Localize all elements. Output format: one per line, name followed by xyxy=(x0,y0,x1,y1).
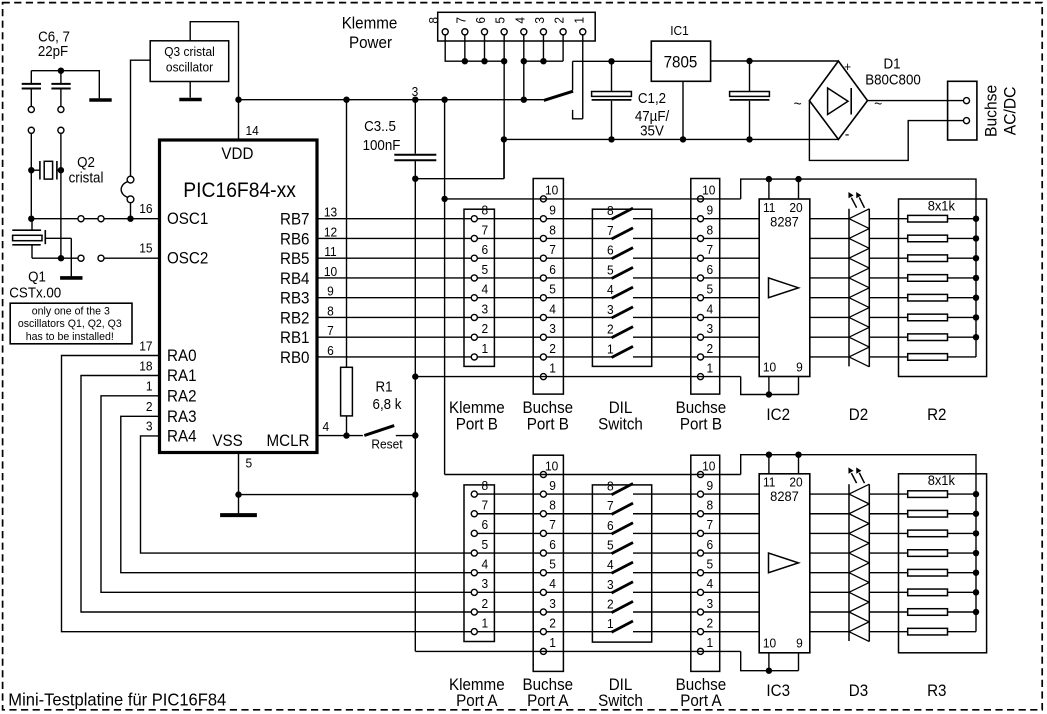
svg-text:IC1: IC1 xyxy=(670,24,689,39)
svg-text:8: 8 xyxy=(481,478,488,493)
svg-text:VDD: VDD xyxy=(221,145,253,163)
svg-text:2: 2 xyxy=(552,17,567,24)
svg-text:2: 2 xyxy=(481,322,488,337)
resistor R3 element 2 xyxy=(908,510,948,517)
svg-text:Port A: Port A xyxy=(680,692,722,710)
buffer IC IC2 8287 xyxy=(759,199,810,377)
wire row A4 across xyxy=(474,572,611,574)
wire OSC1 net xyxy=(31,218,98,220)
svg-text:7805: 7805 xyxy=(664,54,698,72)
capacitor C3..5 xyxy=(414,100,416,154)
svg-text:6: 6 xyxy=(327,343,334,358)
wire row B4 LED to resistor xyxy=(869,297,907,299)
svg-text:RB7: RB7 xyxy=(280,211,310,229)
node reset on ground line xyxy=(412,432,418,438)
svg-text:3: 3 xyxy=(607,577,614,592)
switch DIL B2 blade xyxy=(612,327,634,338)
switch DIL B4 blade xyxy=(612,287,634,298)
wire RB5 row pin 11 xyxy=(317,257,612,259)
wire Klemme Power pins 8-5 bus xyxy=(445,35,504,62)
node R2 common 5 xyxy=(973,295,979,301)
svg-text:3: 3 xyxy=(146,419,153,434)
wire row B8 resistor to common xyxy=(948,218,977,220)
wire RB4 row pin 10 xyxy=(317,277,612,279)
oscillator box Q3 xyxy=(150,41,229,82)
bridge rectifier D1 xyxy=(809,61,867,139)
node R3 common 7 xyxy=(973,609,979,615)
svg-text:Switch: Switch xyxy=(598,416,643,434)
svg-text:Q1: Q1 xyxy=(28,268,46,285)
wire IC1 ground pin xyxy=(682,81,684,139)
wire Q3 power to VDD rail xyxy=(190,22,238,100)
node R2 common 2 xyxy=(973,235,979,241)
svg-text:has to be installed!: has to be installed! xyxy=(26,331,114,343)
svg-text:5: 5 xyxy=(607,263,614,278)
pin 20 lead IC2 xyxy=(798,179,800,199)
svg-text:2: 2 xyxy=(549,341,556,356)
wire RB1 row pin 7 xyxy=(317,336,612,338)
svg-text:Q3 cristal: Q3 cristal xyxy=(164,45,214,60)
wire row B1 resistor to common xyxy=(948,356,977,358)
wire row A3 LED to resistor xyxy=(869,591,907,593)
note box xyxy=(10,303,132,344)
svg-text:6: 6 xyxy=(706,537,713,552)
wire row A8 IC to LED xyxy=(810,493,849,495)
pin 9 lead IC2 xyxy=(798,377,800,395)
svg-text:MCLR: MCLR xyxy=(267,432,310,450)
wire crystal right leg xyxy=(60,133,62,258)
svg-text:9: 9 xyxy=(549,203,556,218)
node C1 top join xyxy=(608,58,614,64)
svg-text:3: 3 xyxy=(549,596,556,611)
wire row A2 LED to resistor xyxy=(869,611,907,613)
svg-text:-: - xyxy=(845,127,850,144)
svg-text:RA1: RA1 xyxy=(167,368,197,386)
LED array D3 xyxy=(848,484,850,641)
svg-text:OSC2: OSC2 xyxy=(167,250,208,268)
svg-text:9: 9 xyxy=(549,478,556,493)
svg-text:4: 4 xyxy=(706,302,713,317)
svg-text:15: 15 xyxy=(139,241,152,256)
svg-text:8: 8 xyxy=(327,304,334,319)
pin 5 VSS lead xyxy=(238,453,240,495)
wire VDD row Port B xyxy=(445,198,741,200)
svg-text:8: 8 xyxy=(426,17,441,24)
svg-text:8: 8 xyxy=(607,479,614,494)
svg-text:14: 14 xyxy=(246,124,259,139)
LED array D2 xyxy=(848,209,850,367)
svg-text:7: 7 xyxy=(607,499,614,514)
wire row A4 IC to LED xyxy=(810,572,849,574)
svg-text:3: 3 xyxy=(706,596,713,611)
svg-text:7: 7 xyxy=(706,243,713,258)
pin 11 lead IC2 xyxy=(768,179,770,199)
capacitor C1 xyxy=(611,61,613,91)
svg-text:6: 6 xyxy=(481,243,488,258)
svg-text:4: 4 xyxy=(607,558,614,573)
wire row A6 IC to LED xyxy=(810,532,849,534)
svg-text:1: 1 xyxy=(607,342,614,357)
wire row B7 resistor to common xyxy=(948,237,977,239)
switch DIL B3 blade xyxy=(612,307,634,318)
wire row A1 resistor to common xyxy=(948,631,977,633)
wire row A8 across xyxy=(474,493,611,495)
resistor R2 element 5 xyxy=(908,294,948,301)
wire R1 to MCLR xyxy=(346,416,348,436)
wire RA0 to Klemme Port A xyxy=(62,356,472,632)
node IC2 pin 10 xyxy=(766,391,772,397)
connector Klemme Port B xyxy=(464,209,494,366)
svg-text:IC3: IC3 xyxy=(766,683,790,701)
svg-text:Buchse: Buchse xyxy=(522,399,573,417)
wire row A1 LED to resistor xyxy=(869,631,907,633)
node MCLR R1 junction xyxy=(343,432,349,438)
svg-text:~: ~ xyxy=(794,96,802,113)
wire row A1 IC to LED xyxy=(810,631,849,633)
node IC3 pin 11 xyxy=(766,452,772,458)
wire row B1 IC to LED xyxy=(810,356,849,358)
switch DIL A8 blade xyxy=(612,484,634,495)
svg-text:4: 4 xyxy=(323,419,330,434)
switch DIL B6 blade xyxy=(612,248,634,259)
wire RA2 to Klemme Port A xyxy=(101,396,471,593)
pin 9 lead IC3 xyxy=(798,653,800,671)
LED arrows D3 xyxy=(851,473,856,483)
wire pin4 bus to rail xyxy=(523,61,525,99)
wire row B6 IC to LED xyxy=(810,257,849,259)
node ground at port B xyxy=(412,373,418,379)
PIC16F84 IC body U1 xyxy=(160,140,318,453)
svg-text:2: 2 xyxy=(706,616,713,631)
svg-text:Port A: Port A xyxy=(527,692,569,710)
wire ground line vertical xyxy=(414,179,416,652)
svg-text:Switch: Switch xyxy=(598,692,643,710)
node VDD drop rail join xyxy=(441,97,447,103)
svg-text:5: 5 xyxy=(706,282,713,297)
pin 4 MCLR lead xyxy=(317,435,363,437)
svg-text:D1: D1 xyxy=(883,55,900,72)
svg-text:13: 13 xyxy=(324,205,337,220)
svg-text:R2: R2 xyxy=(927,406,947,424)
pin 20 lead IC3 xyxy=(798,455,800,474)
resistor network R2 box xyxy=(899,199,987,377)
svg-text:1: 1 xyxy=(146,379,153,394)
svg-text:IC2: IC2 xyxy=(766,406,790,424)
svg-text:8: 8 xyxy=(706,223,713,238)
wire row B7 IC to LED xyxy=(810,237,849,239)
svg-text:AC/DC: AC/DC xyxy=(1001,86,1020,135)
crystal Q2 xyxy=(31,169,40,171)
connector Klemme Port A xyxy=(464,485,494,642)
wire C6/C7 top to ground xyxy=(31,70,99,72)
resistor R1 xyxy=(341,367,353,416)
svg-text:6: 6 xyxy=(481,518,488,533)
svg-text:100nF: 100nF xyxy=(363,136,401,153)
ground Q1 xyxy=(60,276,82,280)
wire row A7 resistor to common xyxy=(948,513,977,515)
svg-text:7: 7 xyxy=(549,243,556,258)
svg-text:RB0: RB0 xyxy=(280,349,310,367)
svg-text:Q2: Q2 xyxy=(77,153,95,170)
switch power upper contact xyxy=(572,61,574,90)
svg-text:Port B: Port B xyxy=(527,416,569,434)
svg-text:DIL: DIL xyxy=(609,399,633,417)
svg-text:RB5: RB5 xyxy=(280,251,310,269)
jumper pads OSC1 xyxy=(78,216,84,222)
wire row A8 LED to resistor xyxy=(869,493,907,495)
svg-text:10: 10 xyxy=(763,636,776,651)
DIL switch Port A xyxy=(592,485,651,642)
switch DIL A3 blade xyxy=(612,582,634,593)
node IC2 pin 11 xyxy=(766,176,772,182)
svg-text:5: 5 xyxy=(706,557,713,572)
ground Q3 xyxy=(179,98,201,102)
svg-text:8x1k: 8x1k xyxy=(928,198,955,214)
wire row A4 resistor to common xyxy=(948,572,977,574)
svg-text:22pF: 22pF xyxy=(38,42,68,59)
resistor network R3 box xyxy=(899,474,987,653)
svg-text:9: 9 xyxy=(706,203,713,218)
svg-text:1: 1 xyxy=(481,616,488,631)
node R2 common 6 xyxy=(973,314,979,320)
wire bridge to AC jack top xyxy=(868,100,964,102)
wire row A8 resistor to common xyxy=(948,493,977,495)
node VSS on ground line xyxy=(412,491,418,497)
wire row B3 IC to LED xyxy=(810,316,849,318)
svg-text:2: 2 xyxy=(549,616,556,631)
svg-text:D3: D3 xyxy=(849,683,869,701)
node pin4 rail join xyxy=(521,97,527,103)
switch DIL B7 blade xyxy=(612,228,634,239)
wire RB0 row pin 6 xyxy=(317,356,612,358)
svg-text:C1,2: C1,2 xyxy=(638,89,666,106)
svg-text:9: 9 xyxy=(327,284,334,299)
node R2 common 3 xyxy=(973,255,979,261)
wire row A6 resistor to common xyxy=(948,532,977,534)
svg-text:5: 5 xyxy=(481,537,488,552)
wire Klemme Power pins 4-2 bus xyxy=(524,60,563,62)
switch DIL B5 blade xyxy=(612,267,634,278)
svg-text:7: 7 xyxy=(549,518,556,533)
wire row B8 LED to resistor xyxy=(869,218,907,220)
svg-text:8: 8 xyxy=(481,203,488,218)
resistor R3 element 6 xyxy=(908,589,948,596)
svg-text:3: 3 xyxy=(706,322,713,337)
node R3 common 2 xyxy=(973,511,979,517)
wire RB3 row pin 9 xyxy=(317,297,612,299)
wire C3 ground segment xyxy=(415,178,504,180)
switch DIL A7 blade xyxy=(612,503,634,514)
svg-text:Port B: Port B xyxy=(456,416,498,434)
svg-text:5: 5 xyxy=(493,17,508,24)
DIL switch Port B xyxy=(592,209,651,366)
ground VSS symbol xyxy=(238,495,240,514)
pin 10 lead IC3 xyxy=(768,653,770,671)
resistor R2 element 7 xyxy=(908,334,948,341)
svg-text:PIC16F84-xx: PIC16F84-xx xyxy=(183,179,296,202)
wire VSS to ground line xyxy=(239,494,416,496)
svg-text:Port B: Port B xyxy=(680,416,722,434)
wire VDD drop vertical xyxy=(444,100,446,475)
resistor R3 element 4 xyxy=(908,550,948,557)
connector Buchse AC/DC xyxy=(948,81,977,140)
switch DIL B8 blade xyxy=(612,208,634,219)
ground C6/C7 xyxy=(89,98,111,102)
wire row B6 resistor to common xyxy=(948,257,977,259)
wire row B5 LED to resistor xyxy=(869,277,907,279)
wire row B2 resistor to common xyxy=(948,336,977,338)
svg-text:10: 10 xyxy=(545,459,558,474)
svg-text:16: 16 xyxy=(139,202,152,217)
node R2 common 4 xyxy=(973,275,979,281)
wire bus to ground rail xyxy=(503,61,505,179)
capacitor C2 xyxy=(749,61,751,91)
node C6/C7 junction xyxy=(58,68,64,74)
svg-text:6: 6 xyxy=(549,537,556,552)
node R2 common 7 xyxy=(973,334,979,340)
wire row A2 IC to LED xyxy=(810,611,849,613)
svg-text:10: 10 xyxy=(702,459,715,474)
wire row A2 across xyxy=(474,611,611,613)
svg-text:5: 5 xyxy=(549,282,556,297)
svg-text:8: 8 xyxy=(607,204,614,219)
wire VDD rail to R1 xyxy=(346,100,348,368)
connector Buchse Port A left xyxy=(533,455,563,671)
svg-text:7: 7 xyxy=(327,324,334,339)
resistor R3 element 8 xyxy=(908,628,948,635)
wire row A4 LED to resistor xyxy=(869,572,907,574)
resistor R2 element 3 xyxy=(908,255,948,262)
svg-text:Buchse: Buchse xyxy=(982,85,1001,137)
switch DIL A6 blade xyxy=(612,523,634,534)
svg-text:6: 6 xyxy=(607,243,614,258)
resistor R2 element 6 xyxy=(908,314,948,321)
resistor R2 element 2 xyxy=(908,235,948,242)
wire row A7 LED to resistor xyxy=(869,513,907,515)
node IC1 ground join xyxy=(680,136,686,142)
svg-text:4: 4 xyxy=(481,557,488,572)
svg-text:4: 4 xyxy=(549,577,556,592)
node R2 common 1 xyxy=(973,216,979,222)
wire OSC2 net xyxy=(61,257,78,259)
wire row A7 IC to LED xyxy=(810,513,849,515)
node R1 rail join xyxy=(343,97,349,103)
svg-text:5: 5 xyxy=(246,456,253,471)
wire RA3 to Klemme Port A xyxy=(121,416,472,572)
node VDD at port B xyxy=(441,196,447,202)
resistor R3 element 7 xyxy=(908,609,948,616)
svg-text:8: 8 xyxy=(706,498,713,513)
svg-text:Klemme: Klemme xyxy=(449,399,505,417)
svg-text:8x1k: 8x1k xyxy=(928,473,955,489)
node IC3 pin 10 xyxy=(766,668,772,674)
svg-text:Klemme: Klemme xyxy=(342,15,398,33)
svg-text:RA0: RA0 xyxy=(167,348,197,366)
svg-text:4: 4 xyxy=(607,283,614,298)
svg-text:5: 5 xyxy=(607,538,614,553)
svg-text:1: 1 xyxy=(549,636,556,651)
connector Buchse Port B right xyxy=(691,179,720,395)
svg-text:5: 5 xyxy=(481,262,488,277)
svg-text:6: 6 xyxy=(706,262,713,277)
svg-text:1: 1 xyxy=(706,361,713,376)
wire row B7 LED to resistor xyxy=(869,237,907,239)
svg-text:9: 9 xyxy=(796,636,803,651)
wire row B2 IC to LED xyxy=(810,336,849,338)
svg-text:RB3: RB3 xyxy=(280,290,310,308)
svg-text:Reset: Reset xyxy=(371,437,403,452)
svg-text:2: 2 xyxy=(146,400,153,415)
node C3 rail join xyxy=(412,97,418,103)
svg-text:7: 7 xyxy=(706,518,713,533)
wire VCC rail IC2 xyxy=(741,179,976,357)
svg-text:4: 4 xyxy=(513,17,528,24)
wire row B5 IC to LED xyxy=(810,277,849,279)
svg-text:C3..5: C3..5 xyxy=(364,117,396,134)
svg-text:VSS: VSS xyxy=(212,432,242,450)
wire RB6 row pin 12 xyxy=(317,237,612,239)
wire row A3 resistor to common xyxy=(948,591,977,593)
node VDD pin rail join xyxy=(235,97,241,103)
wire Q3 output xyxy=(131,60,151,176)
svg-text:D2: D2 xyxy=(849,406,869,424)
node C2 bottom join xyxy=(746,136,752,142)
wire RA1 to Klemme Port A xyxy=(81,376,471,613)
wire power ground rail xyxy=(504,138,839,140)
svg-text:10: 10 xyxy=(702,183,715,198)
wire row A5 across xyxy=(474,552,611,554)
wire jumper to OSC1 xyxy=(130,203,132,219)
svg-text:2: 2 xyxy=(607,322,614,337)
wire RA4 to Klemme Port A xyxy=(141,436,472,553)
wire pin1 hook xyxy=(573,110,583,119)
wire row B3 LED to resistor xyxy=(869,316,907,318)
switch DIL B1 blade xyxy=(612,346,634,357)
resistor R3 element 3 xyxy=(908,530,948,537)
wire row B3 resistor to common xyxy=(948,316,977,318)
svg-text:9: 9 xyxy=(796,360,803,375)
wire row B6 LED to resistor xyxy=(869,257,907,259)
LED arrows D2 xyxy=(851,198,856,208)
svg-text:8287: 8287 xyxy=(770,214,799,230)
svg-text:7: 7 xyxy=(607,223,614,238)
svg-text:11: 11 xyxy=(324,245,336,260)
wire row B4 IC to LED xyxy=(810,297,849,299)
svg-text:12: 12 xyxy=(324,225,337,240)
switch DIL A1 blade xyxy=(612,621,634,632)
node bus ground rail join xyxy=(501,136,507,142)
svg-text:RB1: RB1 xyxy=(280,330,310,348)
svg-text:Mini-Testplatine für PIC16F84: Mini-Testplatine für PIC16F84 xyxy=(8,689,226,710)
svg-text:1: 1 xyxy=(572,17,587,24)
svg-text:RA3: RA3 xyxy=(167,408,197,426)
switch DIL A4 blade xyxy=(612,562,634,573)
resistor R3 element 1 xyxy=(908,491,948,498)
svg-text:RB6: RB6 xyxy=(280,231,310,249)
svg-text:R3: R3 xyxy=(927,683,947,701)
svg-text:4: 4 xyxy=(706,577,713,592)
svg-text:6: 6 xyxy=(607,518,614,533)
svg-text:8287: 8287 xyxy=(770,489,799,505)
svg-text:RA2: RA2 xyxy=(167,388,197,406)
resonator Q1 center electrode xyxy=(44,230,46,244)
jumper OSC1 select xyxy=(127,176,134,183)
wire row A5 resistor to common xyxy=(948,552,977,554)
svg-text:3: 3 xyxy=(481,302,488,317)
resistor R2 element 1 xyxy=(908,215,948,222)
svg-text:2: 2 xyxy=(607,597,614,612)
node C1 bottom join xyxy=(608,136,614,142)
